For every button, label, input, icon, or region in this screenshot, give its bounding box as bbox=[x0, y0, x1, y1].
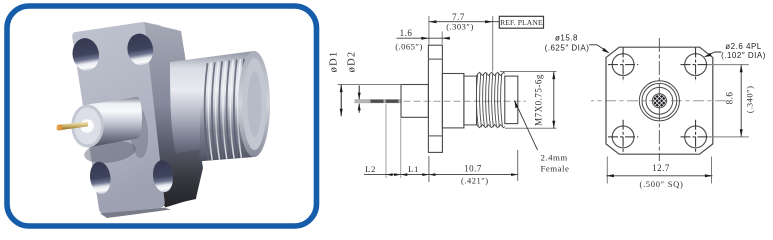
thread dim extension bottom bbox=[505, 127, 557, 129]
bottom dim extension flange face bbox=[428, 156, 430, 182]
bottom dim extension L2 bbox=[385, 104, 387, 178]
svg-text:(.625″ DIA): (.625″ DIA) bbox=[545, 44, 590, 53]
right front view bbox=[545, 34, 766, 189]
pin tip cap bbox=[57, 124, 62, 130]
flange front face bbox=[72, 22, 165, 213]
svg-text:12.7: 12.7 bbox=[652, 163, 670, 173]
thread ribs on body bbox=[205, 59, 245, 161]
svg-text:L1: L1 bbox=[408, 164, 419, 174]
hole top-left bbox=[70, 36, 101, 73]
middle section view bbox=[328, 12, 569, 186]
horizontal centerline bbox=[591, 100, 728, 102]
dim D1 extension line bbox=[338, 84, 402, 86]
dim 1.6 extension line flange back bbox=[441, 32, 443, 45]
svg-text:(.102″ DIA): (.102″ DIA) bbox=[721, 51, 766, 60]
body collar bbox=[442, 74, 464, 128]
dim 7.7 extension line ref plane bbox=[492, 16, 494, 72]
thread groove shadow band bbox=[0, 0, 1, 1]
thread dim extension top bbox=[500, 71, 557, 73]
shadow under boss bbox=[83, 138, 137, 166]
centerline axis bbox=[404, 100, 527, 102]
hole bottom-left bbox=[612, 126, 634, 148]
dim D2 arrows at pin bbox=[358, 86, 360, 100]
svg-text:(.065″): (.065″) bbox=[395, 42, 423, 52]
dim 8.6 extension lines bbox=[708, 64, 749, 66]
nose end section bbox=[505, 76, 518, 124]
center boss cylinder bbox=[88, 97, 143, 148]
hole bottom-right bbox=[685, 126, 707, 148]
svg-text:L2: L2 bbox=[365, 164, 376, 174]
rear insulator body bbox=[401, 85, 428, 118]
dim line 8.6 bbox=[740, 65, 742, 137]
dim 7.7 extension line flange face bbox=[428, 16, 430, 45]
contact pin rear bbox=[354, 99, 401, 103]
svg-text:(.303″): (.303″) bbox=[446, 22, 474, 32]
svg-text:ø2.6 4PL: ø2.6 4PL bbox=[725, 42, 762, 51]
svg-text:M7X0.75-6g: M7X0.75-6g bbox=[534, 74, 544, 126]
bottom dim extension L1 bbox=[400, 118, 402, 178]
svg-text:(.500″ SQ): (.500″ SQ) bbox=[639, 179, 683, 189]
svg-text:(.340″): (.340″) bbox=[745, 86, 755, 114]
leader dia 15.8 bbox=[589, 45, 608, 52]
boss front face bbox=[71, 105, 103, 148]
svg-text:ø15.8: ø15.8 bbox=[555, 34, 578, 43]
dim line D1 bbox=[340, 85, 342, 117]
svg-text:2.4mm: 2.4mm bbox=[541, 153, 568, 163]
thread dim line bbox=[553, 72, 555, 129]
center interface circles bbox=[639, 81, 679, 121]
hole bottom-right bbox=[151, 159, 175, 193]
svg-text:Female: Female bbox=[541, 164, 570, 174]
flange hole lines bbox=[428, 58, 442, 60]
svg-text:10.7: 10.7 bbox=[464, 164, 482, 174]
contact pin bbox=[58, 122, 89, 131]
hole top-right bbox=[125, 32, 155, 68]
blue rounded border frame bbox=[7, 6, 317, 226]
svg-text:1.6: 1.6 bbox=[400, 28, 413, 38]
svg-text:(.421″): (.421″) bbox=[461, 176, 489, 186]
REF. PLANE box bbox=[499, 16, 543, 28]
hole top-right bbox=[685, 54, 707, 76]
svg-text:7.7: 7.7 bbox=[452, 12, 465, 22]
hole bottom-left bbox=[88, 160, 112, 195]
dim line 12.7 bbox=[606, 175, 712, 177]
dim 12.7 extension lines bbox=[606, 157, 608, 184]
hole top-left bbox=[612, 54, 634, 76]
vertical centerline bbox=[658, 38, 660, 161]
bottom dim extension nose end bbox=[517, 150, 519, 181]
leader 2.4mm female bbox=[515, 101, 538, 151]
svg-text:øD1: øD1 bbox=[328, 51, 339, 73]
rear end cap bbox=[238, 51, 270, 157]
threads M7 bbox=[476, 72, 504, 127]
svg-text:øD2: øD2 bbox=[346, 51, 357, 73]
rear body cylinder bbox=[170, 51, 270, 163]
dim line 7.7 bbox=[429, 21, 499, 23]
flange plate section bbox=[428, 45, 442, 152]
dim line 1.6 bbox=[397, 37, 448, 39]
flange bottom edge strip bbox=[100, 208, 171, 218]
leader dia 2.6 bbox=[706, 52, 722, 56]
flange right side face bbox=[144, 22, 204, 208]
flange outline with chamfers bbox=[606, 47, 713, 154]
3D connector photo group bbox=[57, 22, 270, 218]
svg-text:8.6: 8.6 bbox=[725, 92, 735, 105]
flange dark bottom side over cylinder bbox=[163, 149, 200, 206]
center contact hatched bbox=[653, 95, 665, 107]
thread relief section bbox=[464, 76, 477, 125]
bottom dim line bbox=[364, 174, 518, 176]
svg-text:REF. PLANE: REF. PLANE bbox=[500, 18, 543, 27]
flange top side face bbox=[73, 22, 162, 36]
